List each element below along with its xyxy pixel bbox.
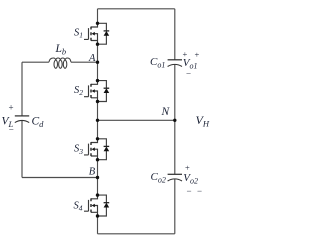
gate S3: [84, 144, 89, 155]
svg-text:−: −: [9, 125, 14, 135]
wire drop to S1: [97, 9, 99, 23]
wire source lead S4: [91, 212, 98, 216]
svg-text:+: +: [195, 50, 200, 60]
wire source lead S1: [91, 41, 98, 45]
capacitor Co1: [168, 59, 182, 61]
wire left rail above Cd: [21, 62, 23, 116]
wire right rail N to Co2: [174, 120, 176, 174]
wire source lead S2: [91, 98, 98, 102]
arrow S1: [92, 32, 95, 36]
svg-text:−: −: [197, 186, 202, 196]
body diode D3: [98, 139, 110, 160]
junction dot bottom S3: [96, 158, 99, 161]
svg-text:−: −: [187, 186, 192, 196]
channel S3: [90, 142, 92, 156]
wire arrow lead S3: [95, 149, 98, 156]
svg-text:+: +: [183, 49, 188, 59]
channel S1: [90, 27, 92, 41]
node N dot right: [173, 119, 176, 122]
wire N tap: [98, 119, 175, 121]
transistor S4 (MOSFET): [84, 195, 98, 216]
wire left rail Cd to corner: [21, 121, 23, 178]
junction dot bottom S2: [96, 100, 99, 103]
gate S4: [84, 200, 89, 211]
junction dot bottom S4: [96, 214, 99, 217]
wire arrow lead S1: [95, 34, 98, 41]
wire rail S3-S4 through node B: [97, 160, 99, 195]
junction dot top S4: [96, 193, 99, 196]
gate S2: [84, 85, 89, 96]
wire drain lead S4: [91, 195, 98, 199]
wire rail S1-S2 through node A: [97, 44, 99, 80]
wire rail S2-S3 through node N tap: [97, 102, 99, 139]
channel S2: [90, 84, 92, 98]
wire arrow lead S2: [95, 91, 98, 98]
capacitor Cd: [15, 115, 29, 117]
svg-text:B: B: [89, 167, 96, 178]
capacitor Co2: [168, 173, 182, 175]
svg-text:N: N: [161, 106, 171, 118]
wire node B horizontal: [22, 177, 98, 179]
wire drain lead S3: [91, 139, 98, 143]
wire source lead S3: [91, 156, 98, 160]
transistor S1 (MOSFET): [84, 23, 98, 44]
svg-text:A: A: [88, 53, 96, 64]
gate S1: [84, 28, 89, 39]
transistor S2 (MOSFET): [84, 81, 98, 102]
wire node A left segment: [22, 61, 49, 63]
svg-text:+: +: [185, 163, 190, 173]
wire top rail: [98, 8, 175, 10]
junction dot top S3: [96, 137, 99, 140]
wire node A right segment: [71, 61, 98, 63]
arrow S4: [92, 204, 95, 208]
arrow S3: [92, 147, 95, 151]
inductor Lb: [49, 58, 71, 68]
channel S4: [90, 198, 92, 212]
svg-text:+: +: [9, 103, 14, 113]
junction dot top S2: [96, 79, 99, 82]
junction dot top S1: [96, 22, 99, 25]
junction dot bottom S1: [96, 43, 99, 46]
body diode D4: [98, 195, 110, 216]
wire right rail Co2 to bottom: [174, 179, 176, 234]
body diode D2: [98, 81, 110, 102]
body diode D1: [98, 23, 110, 44]
wire drain lead S1: [91, 23, 98, 27]
node B dot: [96, 176, 99, 179]
wire arrow lead S4: [95, 206, 98, 213]
wire rail S4 to bottom: [97, 216, 99, 234]
arrow S2: [92, 89, 95, 93]
wire drain lead S2: [91, 81, 98, 85]
svg-text:−: −: [186, 69, 191, 79]
wire right rail above Co1: [174, 9, 176, 60]
transistor S3 (MOSFET): [84, 139, 98, 160]
wire right rail Co1 to N: [174, 64, 176, 120]
node A dot: [96, 61, 99, 64]
node N dot left: [96, 119, 99, 122]
wire bottom rail: [98, 233, 175, 235]
